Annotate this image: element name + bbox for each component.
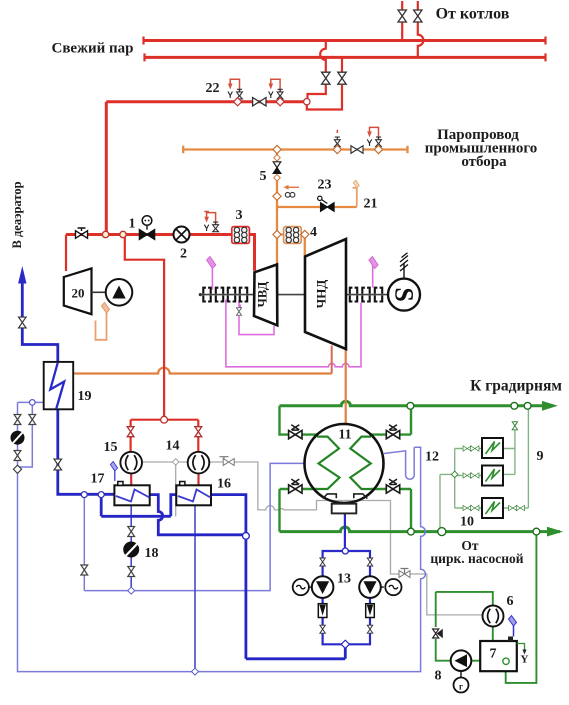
svg-text:цирк. насосной: цирк. насосной: [430, 551, 523, 566]
svg-text:8: 8: [435, 669, 442, 684]
svg-text:10: 10: [460, 515, 474, 530]
svg-text:Y: Y: [521, 654, 529, 666]
svg-text:21: 21: [364, 197, 378, 212]
svg-text:1: 1: [129, 217, 136, 232]
svg-text:15: 15: [104, 440, 118, 455]
svg-text:5: 5: [260, 169, 267, 184]
svg-text:2: 2: [180, 247, 187, 262]
svg-text:От котлов: От котлов: [436, 6, 510, 23]
svg-text:17: 17: [91, 472, 105, 487]
svg-text:Свежий пар: Свежий пар: [52, 41, 134, 57]
svg-text:14: 14: [166, 439, 180, 454]
svg-text:20: 20: [72, 286, 85, 301]
svg-text:16: 16: [217, 477, 231, 492]
svg-text:23: 23: [318, 178, 332, 193]
svg-text:В деаэратор: В деаэратор: [10, 181, 24, 248]
svg-text:7: 7: [490, 647, 497, 662]
svg-text:22: 22: [206, 81, 220, 96]
svg-text:13: 13: [337, 572, 351, 587]
svg-text:18: 18: [145, 546, 159, 561]
svg-text:12: 12: [425, 450, 439, 465]
svg-text:ЧВД: ЧВД: [256, 281, 270, 307]
svg-text:3: 3: [236, 208, 243, 223]
svg-text:ЧНД: ЧНД: [314, 280, 329, 309]
svg-text:К градирням: К градирням: [470, 378, 562, 395]
svg-text:19: 19: [78, 389, 92, 404]
svg-text:9: 9: [537, 449, 544, 464]
svg-text:отбора: отбора: [461, 154, 507, 170]
svg-text:11: 11: [338, 428, 351, 443]
svg-text:S: S: [390, 287, 419, 301]
svg-text:г: г: [459, 681, 463, 691]
svg-text:4: 4: [310, 225, 317, 240]
svg-text:6: 6: [507, 594, 514, 609]
